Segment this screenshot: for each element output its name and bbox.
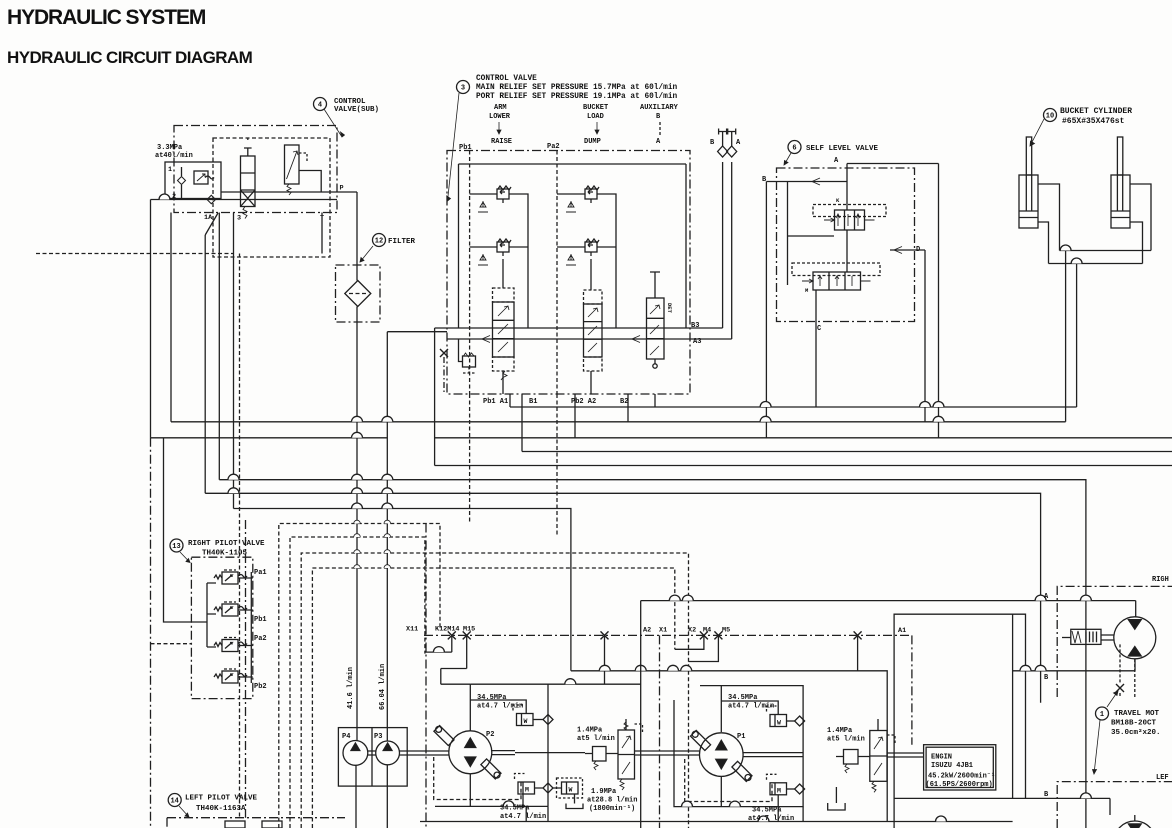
svg-text:M: M xyxy=(525,786,529,793)
svg-text:Pb1 A1: Pb1 A1 xyxy=(483,398,508,406)
pump P4 xyxy=(343,741,368,766)
wire A top xyxy=(847,164,939,211)
wire cyl down left xyxy=(1065,251,1067,422)
svg-text:35.0cm²x20.: 35.0cm²x20. xyxy=(1111,728,1161,737)
callout 1 xyxy=(1093,691,1161,774)
spool valve SV2 xyxy=(618,719,643,790)
wire motor A drop xyxy=(1135,601,1137,617)
spool valve SLV1 xyxy=(813,197,886,230)
solenoid box M xyxy=(194,171,208,184)
wire pilot feed left xyxy=(164,438,192,622)
wire dashed vertical x239.5 xyxy=(239,254,241,818)
svg-text:at4.7 l/min: at4.7 l/min xyxy=(728,703,774,711)
svg-text:W: W xyxy=(524,718,528,725)
right travel motor enclosure xyxy=(1057,586,1172,697)
callout 4 xyxy=(314,98,380,138)
pump P1 xyxy=(691,730,753,781)
wire P bus upper xyxy=(435,327,690,329)
wire tank line xyxy=(151,199,338,201)
svg-text:1: 1 xyxy=(1100,711,1104,719)
svg-text:3: 3 xyxy=(237,215,241,223)
pump P3 xyxy=(376,741,400,765)
wire vertical left main xyxy=(150,200,152,438)
svg-text:LOWER: LOWER xyxy=(489,113,511,121)
svg-text:M: M xyxy=(777,787,781,794)
wire bus3 y437.8 xyxy=(151,437,388,439)
svg-text:BUCKET CYLINDER: BUCKET CYLINDER xyxy=(1060,107,1132,116)
svg-text:3.3MPa: 3.3MPa xyxy=(157,144,183,152)
svg-text:Pb1: Pb1 xyxy=(254,616,267,624)
relief valve RV1 xyxy=(497,186,511,203)
wire B2 line y798.4 xyxy=(894,797,1110,799)
svg-text:(61.5PS/2600rpm): (61.5PS/2600rpm) xyxy=(926,781,993,789)
wire X bus dashdot y635.4 xyxy=(424,634,912,636)
control valve sub enclosure xyxy=(174,126,337,213)
svg-text:14: 14 xyxy=(170,798,178,806)
svg-text:1.4MPa: 1.4MPa xyxy=(577,727,603,735)
check arrows on bus xyxy=(482,336,640,343)
callout 6 xyxy=(784,141,879,166)
wire ring2 xyxy=(290,537,425,828)
relief valve RV5 xyxy=(459,339,476,373)
svg-text:TH40K-1105: TH40K-1105 xyxy=(202,550,248,558)
pilot valve U13 enclosure xyxy=(191,557,252,698)
pump P2 swash dashed ring xyxy=(434,757,521,800)
svg-text:A1: A1 xyxy=(898,627,906,635)
svg-text:1.9MPa: 1.9MPa xyxy=(591,788,617,796)
svg-text:TH40K-1163A: TH40K-1163A xyxy=(196,805,246,813)
svg-text:ARM: ARM xyxy=(494,104,507,112)
wire aux down xyxy=(654,394,656,407)
svg-text:at4.7 l/min: at4.7 l/min xyxy=(500,813,546,821)
wire diagonal 1A xyxy=(205,213,218,235)
svg-text:41.6 l/min: 41.6 l/min xyxy=(347,667,355,709)
svg-text:3: 3 xyxy=(461,85,465,93)
svg-text:A3: A3 xyxy=(693,338,701,346)
cylinder CYL2 xyxy=(1111,137,1130,228)
pump P1 enclosure xyxy=(674,686,803,807)
wire bottom line y821.5 xyxy=(420,821,1013,823)
svg-text:BM18B-20CT: BM18B-20CT xyxy=(1111,720,1157,728)
pilot valve PV3 xyxy=(214,638,247,652)
wire filter vertical xyxy=(356,192,358,741)
relief valve RV-P2a xyxy=(513,705,553,726)
X drain mark xyxy=(440,349,448,357)
control valve sub dashed enclosure xyxy=(213,138,330,257)
wire A right vertical xyxy=(938,164,940,438)
pilot relief PR2 xyxy=(585,747,618,771)
brake BR1 xyxy=(1062,629,1114,644)
relief valve RV-P1b xyxy=(767,774,805,795)
wire C line xyxy=(815,290,817,407)
wire bus7 y496 xyxy=(205,493,1040,702)
svg-text:13: 13 xyxy=(172,543,180,551)
check arrow on line xyxy=(207,195,216,204)
pilot valve U14 enclosure top xyxy=(167,817,345,819)
wire B horizontal xyxy=(766,181,847,183)
wire pv left connectors xyxy=(191,583,216,647)
spool S2 bucket section xyxy=(584,290,603,371)
svg-text:6: 6 xyxy=(792,145,796,153)
svg-text:B2: B2 xyxy=(620,398,628,406)
wire P2 shaft right xyxy=(492,751,585,755)
svg-text:at5 l/min: at5 l/min xyxy=(827,736,865,744)
wire ring4 xyxy=(312,568,674,828)
wire bus5 y467.8 xyxy=(435,328,1172,466)
svg-text:34.5MPa: 34.5MPa xyxy=(728,694,758,702)
sub valve block xyxy=(165,162,221,199)
wire pv rail xyxy=(250,572,252,683)
filter F1 xyxy=(336,265,381,322)
svg-text:10: 10 xyxy=(1046,113,1054,121)
svg-text:at4.7 l/min: at4.7 l/min xyxy=(477,703,523,711)
svg-text:HYDRAULIC SYSTEM: HYDRAULIC SYSTEM xyxy=(7,6,206,29)
svg-text:X11: X11 xyxy=(406,626,418,634)
wire cyl cross B xyxy=(1049,263,1143,265)
pilot valve PV5 partial xyxy=(225,821,245,828)
svg-text:ENGIN: ENGIN xyxy=(931,754,952,762)
wire vertical x204.8 xyxy=(204,235,206,493)
svg-text:45.2kW/2600min⁻¹: 45.2kW/2600min⁻¹ xyxy=(928,773,995,781)
spool S1 arm section xyxy=(493,288,515,380)
svg-text:RAISE: RAISE xyxy=(491,138,512,146)
wire X stubs mid xyxy=(675,635,704,649)
svg-text:SELF LEVEL VALVE: SELF LEVEL VALVE xyxy=(806,145,879,153)
svg-text:X1: X1 xyxy=(659,627,667,635)
wire T drain xyxy=(321,213,323,254)
svg-text:B3: B3 xyxy=(691,322,699,330)
svg-text:P2: P2 xyxy=(486,731,494,739)
callout 12 xyxy=(360,234,416,263)
svg-text:B1: B1 xyxy=(529,398,537,406)
svg-text:HYDRAULIC CIRCUIT DIAGRAM: HYDRAULIC CIRCUIT DIAGRAM xyxy=(7,48,253,67)
wire spool column links xyxy=(503,259,591,394)
wire dashdot v x426 xyxy=(425,524,427,828)
wire Pb1 pilot to ring xyxy=(469,394,471,524)
pilot valve PV2 xyxy=(214,602,247,616)
svg-text:W: W xyxy=(569,786,573,793)
svg-text:1: 1 xyxy=(168,166,172,174)
wire motor bottom dashed xyxy=(1134,659,1136,697)
wire B1 down xyxy=(521,394,523,452)
relief valve RV-P2b xyxy=(515,774,562,795)
wire B3/A3 stubs xyxy=(690,328,732,339)
wire B vertical xyxy=(765,182,767,438)
svg-text:AUXILIARY: AUXILIARY xyxy=(640,104,679,112)
wire bus6 y481.5 xyxy=(219,480,1086,828)
wire vertical x214.9 xyxy=(218,213,220,480)
control valve U3 enclosure xyxy=(447,151,690,395)
svg-text:X2: X2 xyxy=(688,627,696,635)
wire engine shaft xyxy=(887,753,924,757)
wire cyl1 bottom port xyxy=(1038,222,1049,264)
svg-text:1A: 1A xyxy=(204,214,213,222)
svg-text:P: P xyxy=(340,185,344,193)
check valve xyxy=(178,177,186,185)
wire B2 down xyxy=(627,394,629,422)
svg-text:DUMP: DUMP xyxy=(584,138,601,146)
svg-text:at40l/min: at40l/min xyxy=(155,152,193,160)
wire cyl down right xyxy=(1076,264,1078,408)
pilot valve PV1 xyxy=(214,570,247,584)
wire P line xyxy=(221,191,358,193)
wire dashed drain horizontal xyxy=(36,253,233,255)
pilot operated valve xyxy=(285,145,322,195)
svg-text:A2: A2 xyxy=(643,627,651,635)
wire X stubs left xyxy=(425,635,452,652)
X marks on bus xyxy=(448,631,456,639)
svg-text:1.4MPa: 1.4MPa xyxy=(827,727,853,735)
self level valve U6 enclosure xyxy=(777,168,915,322)
travel motor M1 xyxy=(1114,617,1156,659)
wire B inner L xyxy=(788,182,835,286)
pilot relief PR1 xyxy=(836,750,870,774)
svg-text:#65X#35X476st: #65X#35X476st xyxy=(1062,117,1125,126)
wire cyl2 rod port xyxy=(1130,184,1151,251)
A1 feed box xyxy=(894,614,1025,828)
wire bus8 y509.5 xyxy=(234,509,571,671)
breather B xyxy=(710,129,728,329)
wire cyl1 rod port xyxy=(1038,184,1060,251)
wire relief links col2 xyxy=(557,194,616,328)
wire pump verticals below xyxy=(470,774,721,807)
engine E1 xyxy=(924,745,996,790)
svg-text:CONTROL VALVE: CONTROL VALVE xyxy=(476,75,537,83)
relief valve RV-P2c xyxy=(557,778,584,809)
spool valve SLV2 xyxy=(792,263,880,294)
svg-text:at4.7 l/min: at4.7 l/min xyxy=(748,815,794,823)
wire Pb1 pilot dashed xyxy=(469,151,471,395)
svg-text:at5 l/min: at5 l/min xyxy=(577,735,615,743)
svg-text:VALVE(SUB): VALVE(SUB) xyxy=(334,106,379,114)
wire ring3 xyxy=(301,553,688,828)
wire P3 return vertical xyxy=(386,332,388,741)
wire A2 down xyxy=(574,394,576,438)
svg-text:Pb2: Pb2 xyxy=(254,683,267,691)
wire pump shafts xyxy=(368,751,376,755)
wire P1 shafts xyxy=(635,751,804,757)
wire vertical x171 xyxy=(170,213,172,422)
svg-text:66.04 l/min: 66.04 l/min xyxy=(379,664,387,710)
svg-text:TRAVEL MOT: TRAVEL MOT xyxy=(1114,710,1160,718)
svg-text:DET: DET xyxy=(666,303,673,314)
wire Pa2 pilot to ring xyxy=(556,394,558,537)
svg-text:4: 4 xyxy=(318,102,322,110)
wire bus1 y407 xyxy=(510,406,1077,408)
callout 10 xyxy=(1030,107,1132,146)
relief valve RV-P1a xyxy=(767,706,805,727)
pressure reducing valve xyxy=(241,137,256,219)
relief valve RV2 xyxy=(497,239,511,256)
wire bus4 y451.5 xyxy=(522,451,1172,453)
wire top rail xyxy=(459,164,687,328)
wire cyl cross A xyxy=(1060,250,1152,252)
svg-text:34.5MPa: 34.5MPa xyxy=(477,694,507,702)
breather A xyxy=(727,129,741,340)
wire dashdot vertical x245.5 xyxy=(245,520,247,818)
wire relief links col1 xyxy=(470,194,528,328)
travel motor M2 partial xyxy=(1110,798,1156,828)
wire A line y600.6 xyxy=(641,601,1136,828)
svg-text:CONTROL: CONTROL xyxy=(334,98,366,106)
svg-text:Pa2: Pa2 xyxy=(547,143,560,151)
callout 13 xyxy=(170,539,265,563)
svg-text:at28.8 l/min: at28.8 l/min xyxy=(587,797,637,805)
wire pv ports xyxy=(238,578,253,677)
wire P bus lower xyxy=(447,338,690,340)
pump block P4 P3 xyxy=(338,728,407,787)
wire ring1 xyxy=(279,524,440,828)
svg-text:W: W xyxy=(777,719,781,726)
svg-text:P3: P3 xyxy=(374,733,382,741)
wire A1 down xyxy=(509,394,511,407)
callout 3 xyxy=(447,81,470,202)
svg-text:PORT RELIEF SET PRESSURE 19.1M: PORT RELIEF SET PRESSURE 19.1MPa at 60l/… xyxy=(476,93,678,101)
svg-text:LOAD: LOAD xyxy=(587,113,604,121)
wire dashed feed y643.7 xyxy=(151,643,193,645)
svg-text:MAIN RELIEF SET PRESSURE 15.7M: MAIN RELIEF SET PRESSURE 15.7MPa at 60l/… xyxy=(476,84,678,92)
relief valve RV4 xyxy=(585,239,599,256)
svg-text:34.5MPa: 34.5MPa xyxy=(500,805,530,813)
svg-text:12: 12 xyxy=(375,238,383,246)
left travel motor enclosure xyxy=(1057,782,1172,828)
svg-text:ISUZU 4JB1: ISUZU 4JB1 xyxy=(931,762,973,770)
svg-text:(1800min⁻¹): (1800min⁻¹) xyxy=(589,805,635,813)
svg-text:BUCKET: BUCKET xyxy=(583,104,608,112)
wire vertical x231.8 xyxy=(233,213,235,509)
svg-text:FILTER: FILTER xyxy=(388,238,416,246)
pump P2 xyxy=(434,726,501,780)
wire D line xyxy=(915,250,926,422)
wire relief loops P1 xyxy=(721,686,803,822)
wire bus2 y421.8 xyxy=(171,421,1066,423)
wire suction line y670.8 xyxy=(571,671,887,822)
pump P1 swash dashed ring xyxy=(685,759,772,802)
svg-text:P4: P4 xyxy=(342,733,350,741)
pilot valve PV4 xyxy=(214,669,247,683)
wire valve link xyxy=(846,230,848,272)
svg-text:RIGHT PILOT VALVE: RIGHT PILOT VALVE xyxy=(188,540,265,548)
svg-text:34.5MPa: 34.5MPa xyxy=(752,807,782,815)
wire B line y670.8 xyxy=(1013,614,1135,798)
wire dashdot v x659.5 xyxy=(659,635,661,828)
svg-text:M4: M4 xyxy=(703,627,711,635)
wire dashdot v x911.9 A1 xyxy=(911,635,913,744)
spool valve SV1 xyxy=(870,719,895,792)
svg-text:C: C xyxy=(817,325,821,333)
svg-text:M5: M5 xyxy=(722,627,730,635)
wire Pa2 pilot dashed xyxy=(556,151,558,395)
wire cyl2 bottom port xyxy=(1130,222,1143,264)
svg-text:Pa1: Pa1 xyxy=(254,569,267,577)
svg-text:RIGH: RIGH xyxy=(1152,576,1169,584)
cylinder CYL1 xyxy=(1019,137,1038,228)
svg-text:P1: P1 xyxy=(737,733,745,741)
svg-text:Pa2: Pa2 xyxy=(254,635,267,643)
X drain motor xyxy=(1116,684,1124,692)
pump P2 enclosure xyxy=(435,684,641,806)
svg-text:LEFT PILOT VALVE: LEFT PILOT VALVE xyxy=(185,795,258,803)
tank symbol xyxy=(828,803,845,810)
svg-text:LEF: LEF xyxy=(1156,774,1169,782)
relief valve RV3 xyxy=(585,186,599,203)
callout 14 xyxy=(168,794,257,818)
spool S3 auxiliary section with detent xyxy=(647,272,674,368)
